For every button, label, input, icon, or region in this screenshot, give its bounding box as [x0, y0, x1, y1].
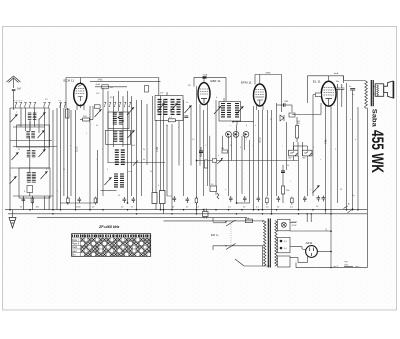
wire switch to transformer bottom — [244, 265, 271, 267]
resistor R5 — [168, 119, 175, 122]
wire speaker to right rail — [366, 108, 368, 268]
heater winding box — [278, 237, 291, 253]
svg-text:0,1M: 0,1M — [76, 147, 79, 152]
capacitor C38 — [184, 116, 188, 117]
svg-text:0,8A: 0,8A — [245, 217, 250, 220]
wire IFT2 tap — [233, 121, 254, 123]
svg-text:25: 25 — [230, 145, 232, 147]
wire HT rail — [330, 214, 332, 268]
wire padder line — [108, 162, 165, 164]
svg-text:4mA: 4mA — [96, 83, 101, 86]
svg-text:220 V~: 220 V~ — [211, 233, 220, 237]
transformer output core — [371, 80, 373, 106]
fuse F1 — [246, 219, 253, 223]
diode D3 — [243, 131, 249, 137]
capacitor C35 tone — [350, 89, 355, 91]
svg-text:1: 1 — [86, 133, 87, 135]
capacitor C8 — [22, 197, 26, 203]
capacitor C29 — [281, 171, 285, 172]
coil L1 — [28, 113, 32, 119]
trimmer C6 — [10, 176, 17, 184]
trimmer C7 — [41, 171, 48, 179]
wire L4 down — [29, 193, 31, 197]
capacitor C23 — [199, 151, 203, 152]
ground left — [12, 210, 14, 217]
coil L6 — [115, 150, 119, 164]
svg-text:0,3M: 0,3M — [157, 147, 159, 152]
trimmer C20 — [171, 103, 178, 111]
wire osc rails — [63, 108, 65, 196]
transformer IFT2 — [219, 102, 241, 122]
svg-text:1M: 1M — [221, 148, 224, 150]
svg-text:am 7.: am 7. — [334, 266, 340, 268]
switch contact row S2 — [59, 102, 61, 107]
svg-text:1n: 1n — [186, 102, 188, 104]
svg-text:5nF: 5nF — [17, 88, 22, 91]
svg-text:X39K: X39K — [265, 72, 271, 74]
svg-text:4: 4 — [158, 185, 159, 187]
transformer output primary — [365, 81, 368, 107]
table row labels — [72, 239, 79, 257]
wire coil center tap — [29, 121, 31, 132]
svg-text:4: 4 — [313, 147, 314, 149]
svg-text:x: x — [320, 159, 321, 161]
tube U5 AZ11 — [306, 246, 318, 258]
svg-text:1=1k: 1=1k — [97, 79, 103, 81]
capacitor C16 — [132, 197, 136, 203]
loudspeaker LS1 — [377, 85, 379, 96]
wire antenna lead — [13, 78, 15, 89]
svg-text:5000: 5000 — [131, 145, 135, 147]
wire tap line — [101, 189, 117, 191]
wire EFM pins — [256, 105, 258, 110]
capacitor C11 — [78, 197, 82, 203]
wire mains upper — [253, 220, 264, 222]
resistor R18 — [145, 86, 149, 93]
svg-text:7: 7 — [10, 175, 11, 177]
wire bottom right line — [296, 267, 367, 269]
wire AVC line — [197, 160, 299, 162]
wire IFT2 stubs — [223, 98, 225, 102]
wire second bus — [8, 213, 367, 215]
resistor R15 — [291, 197, 294, 205]
wire left block horizontals — [10, 107, 49, 109]
wire EL grid feed — [292, 114, 321, 116]
svg-text:EBF 11: EBF 11 — [211, 79, 221, 83]
wire AZ11 heater stubs — [306, 214, 308, 222]
resistor R4 — [94, 197, 97, 205]
wire partial third bus — [37, 216, 247, 218]
svg-text:Laut: Laut — [72, 250, 77, 253]
trimmer C19 — [158, 103, 165, 111]
svg-text:4/8k: 4/8k — [325, 139, 328, 144]
trimmer C4 — [12, 152, 19, 160]
svg-text:Wn: Wn — [336, 81, 339, 83]
svg-text:4mA: 4mA — [334, 72, 339, 75]
capacitor C25 — [186, 197, 190, 203]
capacitor antenna coupling — [12, 89, 16, 90]
coil L8 small — [66, 109, 70, 118]
svg-text:22 W: 22 W — [292, 225, 297, 227]
wire EBF pins — [199, 104, 201, 110]
tube U4 EL11 — [321, 81, 336, 106]
svg-text:50: 50 — [287, 165, 289, 167]
svg-text:50: 50 — [166, 125, 168, 127]
svg-text:7 7 7 7 7: 7 7 7 7 7 — [14, 101, 23, 103]
svg-text:455 WK: 455 WK — [368, 130, 386, 173]
svg-text:ZF=465 kHz: ZF=465 kHz — [98, 225, 120, 229]
wire line A second — [95, 86, 127, 88]
svg-text:b: b — [355, 139, 356, 141]
svg-text:50: 50 — [118, 195, 120, 197]
wire right rails — [337, 93, 339, 203]
wire anode line ECH11 — [66, 77, 159, 79]
trimmer C12 — [127, 107, 134, 115]
wire antenna to coil — [13, 91, 15, 103]
svg-text:0,1: 0,1 — [192, 139, 195, 141]
wire transformer bottom out — [295, 263, 297, 268]
svg-text:2n: 2n — [270, 119, 272, 121]
svg-text:Rote II: Rote II — [72, 243, 79, 246]
wire main ground bus — [5, 209, 367, 211]
wire EBF anode stub — [203, 77, 205, 82]
wire left rails — [9, 108, 11, 210]
svg-text:2: 2 — [57, 191, 58, 193]
svg-text:9: 9 — [44, 147, 45, 149]
wire ECH11 pins — [76, 103, 78, 110]
rectifier GW2 — [303, 150, 313, 156]
svg-text:30: 30 — [18, 149, 20, 151]
svg-text:5n: 5n — [349, 86, 351, 88]
tube U3 EFM11 — [253, 84, 266, 106]
resistor R1 — [27, 186, 33, 193]
wire right-mid rails — [258, 110, 260, 196]
capacitor C31 — [277, 196, 281, 202]
wire transformer top — [344, 80, 365, 82]
trimmer C5 — [39, 149, 46, 157]
svg-text:GW: GW — [288, 158, 292, 160]
capacitor C18 electrolytic — [160, 191, 166, 204]
wire block bottom drops — [22, 196, 24, 210]
svg-text:2M: 2M — [297, 123, 300, 125]
wire mid-right rails — [166, 125, 168, 196]
svg-text:5k: 5k — [20, 207, 22, 209]
resistor R9 — [195, 197, 198, 205]
HT winding box — [278, 256, 291, 267]
svg-text:ECH 11: ECH 11 — [64, 79, 75, 83]
capacitor C37 — [322, 196, 326, 202]
transformer IFT1 — [155, 96, 183, 121]
resistor R17 on AVC — [212, 159, 216, 162]
capacitor C26 — [229, 196, 233, 202]
svg-text:5m: 5m — [352, 195, 355, 197]
capacitor C28 coupling — [284, 103, 286, 107]
table grid — [72, 234, 151, 257]
capacitor C30 — [257, 196, 261, 202]
svg-text:GW: GW — [302, 158, 306, 160]
trimmer C13 — [128, 130, 135, 138]
svg-text:50: 50 — [18, 125, 20, 127]
diode D4 detector — [280, 115, 284, 121]
svg-text:40: 40 — [143, 159, 145, 161]
wire R3 leads — [80, 119, 83, 121]
svg-text:6: 6 — [133, 130, 134, 132]
switch S3 mains — [226, 220, 236, 250]
capacitor C17 electrolytic — [152, 193, 157, 204]
svg-text:50: 50 — [63, 169, 65, 171]
svg-text:AZ11: AZ11 — [306, 241, 313, 245]
svg-text:1: 1 — [246, 139, 247, 141]
junction dots on buses — [60, 209, 62, 211]
wire mains lower — [213, 245, 263, 247]
svg-text:6: 6 — [44, 125, 45, 127]
wire mid rails — [102, 88, 104, 196]
wire anode bracket EL — [308, 75, 344, 77]
svg-text:PN: PN — [345, 262, 348, 264]
wire ECH11 anode stub — [79, 78, 81, 84]
resistor R7 — [222, 150, 228, 153]
capacitor C33 — [336, 84, 340, 93]
potentiometer volume — [217, 158, 223, 164]
coil L7 — [114, 174, 118, 187]
coil L5 — [113, 113, 117, 124]
tube U1 ECH11 — [74, 83, 87, 105]
table header row — [72, 235, 150, 238]
svg-text:15C: 15C — [96, 93, 100, 95]
coil L4 oscillator — [27, 173, 31, 183]
svg-text:work: work — [128, 170, 132, 173]
switch mains arrow — [352, 208, 354, 210]
trimmer C22 — [214, 106, 221, 114]
resistor R2 — [31, 197, 34, 205]
svg-text:2: 2 — [102, 149, 103, 151]
svg-text:4: 4 — [240, 147, 241, 149]
trimmer C22b — [237, 106, 244, 114]
wire heater line — [164, 220, 246, 222]
svg-text:30: 30 — [340, 189, 342, 191]
box oscillator coil 1 — [108, 112, 129, 129]
svg-text:Saba: Saba — [370, 109, 377, 127]
switch contact row S1 — [15, 102, 17, 107]
resistor R10 — [217, 193, 219, 199]
trimmer C21 — [185, 105, 192, 113]
svg-text:1: 1 — [335, 149, 336, 151]
resistor R12 — [296, 126, 299, 139]
switch contact row S4 — [104, 102, 106, 107]
capacitor C34 — [340, 84, 344, 93]
wire EL anode stub — [328, 76, 330, 82]
svg-text:EFM 11: EFM 11 — [241, 80, 252, 84]
wire EFM anode stub — [259, 75, 261, 85]
capacitor C36 — [317, 196, 321, 202]
diode D2 — [233, 131, 239, 137]
coil L2 — [26, 132, 30, 138]
wire primary ends — [263, 221, 264, 223]
svg-text:3n: 3n — [96, 125, 98, 127]
capacitor C27 — [243, 196, 247, 202]
node 150 box — [102, 85, 109, 89]
svg-text:gez.: gez. — [356, 266, 360, 268]
resistor R11 — [289, 113, 295, 117]
coil L5b — [113, 132, 117, 142]
capacitor C32 — [303, 196, 307, 202]
coil L3 — [27, 151, 31, 157]
svg-text:5k: 5k — [172, 207, 174, 209]
svg-text:1n: 1n — [131, 207, 133, 209]
wire anode bracket EFM — [255, 74, 282, 76]
resistor R6 — [205, 160, 208, 168]
trimmer C1 — [11, 114, 18, 122]
resistor R14 — [266, 197, 269, 205]
svg-text:5mA: 5mA — [203, 74, 208, 77]
svg-text:c: c — [230, 125, 231, 127]
trimmer C2 — [39, 112, 46, 120]
svg-text:35,1k: 35,1k — [259, 136, 262, 143]
svg-text:EL 11: EL 11 — [313, 80, 321, 84]
resistor R8 — [210, 186, 217, 192]
transformer T1 primary — [264, 221, 266, 267]
table X marks — [81, 238, 150, 256]
svg-text:9: 9 — [107, 169, 108, 171]
svg-text:Rote I: Rote I — [72, 239, 79, 242]
capacitor C24 — [173, 196, 177, 202]
svg-text:5n: 5n — [352, 94, 354, 96]
svg-text:x: x — [178, 127, 179, 129]
wire IFT1 out — [166, 92, 168, 96]
resistor R16 cathode — [315, 93, 321, 97]
antenna — [7, 76, 21, 83]
svg-text:d: d — [246, 125, 247, 127]
lamp dial circuit — [278, 219, 291, 231]
trimmer C9 — [95, 109, 102, 117]
box oscillator coil 2 — [106, 130, 131, 144]
tube U2 EBF11 — [198, 83, 210, 105]
resistor R19 — [94, 105, 100, 108]
svg-text:x: x — [310, 189, 311, 191]
transformer T1 secondary — [275, 221, 277, 267]
rectifier GW1 — [289, 150, 299, 156]
resistor R3 — [83, 118, 90, 121]
plug mains input — [203, 212, 209, 217]
svg-text:4: 4 — [218, 155, 219, 157]
trimmer C39 — [313, 185, 320, 193]
box antenna coil 1 outline — [17, 125, 50, 147]
svg-text:Gelb: Gelb — [72, 246, 78, 249]
capacitor C10 — [67, 197, 70, 205]
box antenna coil 2 outline — [19, 168, 50, 198]
svg-text:o: o — [225, 189, 226, 191]
svg-text:Rg: Rg — [150, 171, 152, 173]
trimmer C3 — [38, 130, 45, 138]
resistor R13 — [282, 186, 285, 194]
svg-text:e: e — [70, 145, 71, 147]
svg-text:5k: 5k — [143, 149, 145, 151]
capacitor C15 — [123, 197, 127, 203]
svg-text:0,1: 0,1 — [46, 169, 49, 171]
wire AZ11 connections — [290, 246, 302, 248]
diode D1 — [226, 131, 232, 137]
trimmer C14 — [105, 177, 112, 185]
svg-text:2n: 2n — [186, 207, 188, 209]
wire anode bracket EBF — [194, 76, 226, 78]
table alignment chart — [72, 234, 151, 257]
transformer T1 core — [268, 219, 270, 268]
